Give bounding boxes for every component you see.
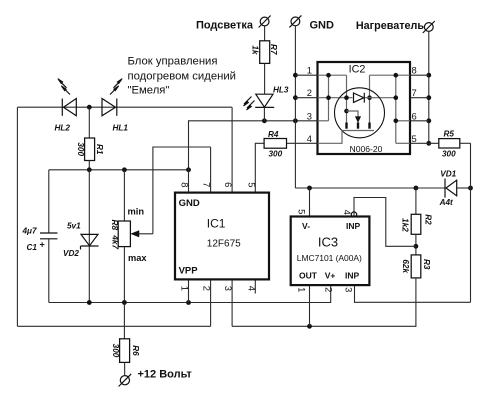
svg-text:VD2: VD2: [63, 249, 79, 258]
resistor R5: [439, 139, 460, 148]
wire R8 bottom: [123, 247, 125, 303]
svg-text:N006-20: N006-20: [350, 144, 383, 154]
svg-text:IC3: IC3: [318, 234, 338, 249]
svg-text:max: max: [128, 253, 147, 263]
svg-text:12F675: 12F675: [207, 239, 241, 250]
IC3 pin numbers bottom: [297, 287, 355, 292]
svg-text:R7: R7: [269, 44, 278, 55]
wire GND row y=188 to VD1: [295, 187, 445, 189]
wire R8 column upper: [123, 170, 125, 221]
wire top LED row y=107.2 from left column to IC1 pin6: [17, 106, 232, 108]
svg-text:"Емеля": "Емеля": [128, 85, 170, 97]
svg-text:300: 300: [269, 150, 283, 159]
svg-text:R1: R1: [95, 144, 104, 155]
node R2-R3 junction: [414, 244, 419, 249]
svg-text:GND: GND: [179, 198, 200, 209]
wire IC1 pin1 vertical: [188, 279, 190, 302]
wire IC1 pin7 vertical: [210, 147, 212, 193]
svg-text:V-: V-: [302, 221, 310, 231]
node heater pin5: [426, 141, 431, 146]
svg-text:IC2: IC2: [349, 64, 366, 76]
IC2 pin numbers left: [307, 65, 312, 144]
terminal Нагреватель: [423, 21, 435, 33]
svg-text:+12 Вольт: +12 Вольт: [138, 369, 193, 381]
svg-text:3: 3: [344, 287, 355, 292]
wire VD1 to right column: [457, 187, 471, 189]
resistor R1: [85, 138, 95, 161]
node GND pin1: [293, 73, 298, 78]
svg-text:2: 2: [307, 87, 312, 98]
svg-text:+: +: [40, 240, 45, 250]
svg-text:8: 8: [412, 65, 417, 76]
LED HL2: [58, 79, 77, 116]
svg-text:5: 5: [246, 182, 257, 187]
svg-text:R6: R6: [131, 345, 140, 356]
svg-text:HL3: HL3: [273, 85, 289, 94]
svg-text:7: 7: [412, 87, 417, 98]
svg-text:R3: R3: [422, 259, 431, 270]
svg-text:4k7: 4k7: [111, 234, 120, 249]
IC2 pin numbers right: [412, 65, 417, 144]
svg-text:5: 5: [412, 133, 417, 144]
terminal GND: [289, 15, 301, 27]
svg-text:1: 1: [307, 65, 312, 76]
wire IC3 pin4 path to R2-R3 junction: [354, 198, 416, 247]
node LED row junction: [87, 105, 92, 110]
wire bottom-left bus y=326.3 to IC1 pin2: [17, 325, 210, 327]
svg-text:Подсветка: Подсветка: [196, 19, 254, 31]
terminal Подсветка: [259, 16, 271, 28]
node GND pin2: [293, 95, 298, 100]
trimmer R8 wiper arrow: [131, 231, 153, 237]
node IC3 pin5: [307, 186, 312, 191]
node R8-R6 junction: [122, 300, 127, 305]
wire IC2 pin8 line: [410, 74, 429, 76]
wire IC1 pin8 vertical + row to IC2 pin3: [189, 121, 265, 193]
wire R5 to right column: [460, 142, 471, 144]
wire right column VD1/R5: [470, 143, 472, 302]
svg-text:A4t: A4t: [439, 198, 453, 207]
IC2 mosfet gate line: [318, 131, 375, 144]
svg-text:INP: INP: [345, 271, 360, 281]
node IC1 pin1: [186, 300, 191, 305]
svg-text:6: 6: [223, 182, 234, 187]
IC2 mosfet channel stubs: [347, 123, 370, 129]
svg-text:R2: R2: [424, 214, 433, 225]
node VD2 bottom: [87, 300, 92, 305]
svg-text:300: 300: [442, 150, 456, 159]
node R8 top: [122, 167, 127, 172]
svg-text:GND: GND: [310, 20, 335, 32]
svg-text:подогревом сидений: подогревом сидений: [128, 71, 236, 83]
wire R6 to +12 terminal: [124, 362, 126, 375]
resistor R6: [120, 339, 130, 363]
wire R1 column from LED row to ground row: [88, 107, 90, 138]
wire mid row y=169.8: [49, 169, 189, 171]
wire IC1 pin3 vertical: [231, 279, 233, 326]
wire IC2 pin7 line: [410, 97, 429, 99]
wire IC2 pin1 line: [295, 74, 317, 76]
wire IC1 pin4 stub: [254, 279, 256, 293]
svg-text:min: min: [128, 207, 145, 217]
node VD1 right column: [468, 186, 473, 191]
wire left column x=17.4: [16, 107, 18, 326]
wire VD2 column: [88, 170, 90, 303]
resistor R7: [260, 41, 270, 64]
svg-text:1k: 1k: [250, 45, 259, 55]
svg-text:OUT: OUT: [299, 271, 318, 281]
svg-text:4: 4: [246, 286, 257, 291]
wire pin3 row across GND bus into IC2: [264, 120, 328, 122]
svg-text:6: 6: [412, 110, 417, 121]
svg-text:R8: R8: [110, 220, 119, 231]
LED HL1: [102, 79, 122, 116]
node IC3 pin4 bubble: [351, 212, 356, 217]
svg-text:HL2: HL2: [55, 123, 71, 132]
title text block: [128, 56, 236, 97]
IC2 box: [318, 62, 411, 154]
svg-text:1: 1: [297, 287, 308, 292]
svg-text:R5: R5: [444, 130, 455, 139]
svg-text:4μ7: 4μ7: [22, 227, 37, 236]
wire Подсветка terminal to R7: [264, 26, 266, 41]
wire R7 to HL3: [264, 63, 266, 94]
wire C1 column upper: [48, 170, 50, 233]
wire R8 wiper to IC1 pin7: [153, 147, 211, 234]
wire IC3 pin3 path: [355, 285, 471, 302]
diode VD1: [445, 179, 457, 198]
resistor R2: [411, 214, 421, 234]
node heater pin6: [426, 118, 431, 123]
wire R2 lead: [415, 188, 417, 214]
svg-text:4: 4: [307, 133, 312, 144]
node IC1 pin8 row junction: [186, 167, 191, 172]
svg-text:HL1: HL1: [113, 123, 129, 132]
svg-text:3: 3: [307, 110, 312, 121]
wire heater bus x=428.8: [428, 31, 430, 143]
IC1 box: [175, 193, 269, 280]
svg-text:2: 2: [323, 287, 334, 292]
svg-text:300: 300: [76, 142, 85, 156]
capacitor C1: [40, 233, 58, 239]
svg-text:300: 300: [111, 344, 120, 358]
wire R3 bottom to feedback bus: [232, 278, 416, 326]
wire IC2 pin6 line: [410, 120, 429, 122]
node R2 top: [414, 186, 419, 191]
terminal +12V: [119, 374, 132, 387]
svg-text:IC1: IC1: [207, 216, 226, 230]
node heater pin7: [426, 95, 431, 100]
LED HL3: [244, 94, 275, 110]
zener VD2: [81, 234, 99, 249]
IC1 pin numbers top: [180, 182, 258, 187]
IC2 internal left bus: [318, 73, 353, 121]
trimmer R8: [118, 221, 130, 247]
svg-text:INP: INP: [346, 221, 361, 231]
IC2 internal bulk tie with arrow: [347, 111, 361, 123]
svg-text:Нагреватель: Нагреватель: [356, 20, 425, 32]
svg-text:LMC7101 (A00A): LMC7101 (A00A): [297, 253, 362, 263]
node GND bus pin3: [293, 118, 298, 123]
IC2 internal source line: [344, 75, 349, 123]
IC2 body diode: [354, 93, 365, 103]
IC2 mosfet circle: [335, 88, 385, 138]
svg-text:62k: 62k: [401, 259, 410, 273]
wire R6 upper lead: [123, 303, 125, 339]
svg-text:VPP: VPP: [179, 265, 199, 276]
node HL3 bottom: [262, 118, 267, 123]
wire IC2 pin2 line: [295, 97, 317, 99]
wire GND bus vertical: [294, 26, 296, 188]
IC2 internal right bus: [370, 73, 411, 143]
wire IC1 pin6 vertical: [231, 107, 233, 192]
node heater pin8: [426, 73, 431, 78]
wire IC2 pin5 line to R5: [410, 142, 439, 144]
resistor R3: [411, 255, 421, 278]
wire R1 bottom to row: [88, 161, 90, 170]
wire R2 to R3: [415, 234, 417, 255]
IC3 box: [291, 217, 370, 286]
svg-text:7: 7: [202, 182, 213, 187]
svg-text:2: 2: [202, 286, 213, 291]
wire R4 to IC2 pin4: [287, 142, 318, 144]
wire C1 column lower: [48, 239, 50, 303]
wire IC1 pin2 vertical: [210, 279, 212, 326]
svg-text:5v1: 5v1: [67, 221, 81, 230]
wire HL3 to pin3 row: [263, 107, 265, 120]
svg-text:C1: C1: [27, 243, 38, 252]
resistor R4: [264, 139, 286, 149]
node IC3 pin1 on feedback bus: [307, 324, 312, 329]
svg-text:1k2: 1k2: [401, 218, 410, 232]
svg-text:R4: R4: [268, 130, 279, 139]
svg-text:8: 8: [180, 182, 191, 187]
IC1 pin numbers bottom: [180, 286, 258, 291]
IC2 internal drain line: [365, 75, 396, 123]
svg-text:1: 1: [180, 286, 191, 291]
IC3 pin numbers top: [297, 209, 353, 215]
svg-text:V+: V+: [325, 271, 336, 281]
svg-text:Блок управления: Блок управления: [128, 56, 218, 68]
wire IC3 pin5 vertical: [309, 188, 311, 217]
svg-text:5: 5: [297, 209, 308, 214]
wire IC1 pin5 to R4: [255, 143, 264, 192]
svg-text:VD1: VD1: [440, 170, 456, 179]
wire IC3 pin1 vertical: [309, 285, 311, 326]
node R1 bottom: [87, 167, 92, 172]
svg-text:3: 3: [223, 286, 234, 291]
svg-text:4: 4: [342, 210, 353, 215]
wire supply bus y=302.5: [49, 285, 331, 302]
